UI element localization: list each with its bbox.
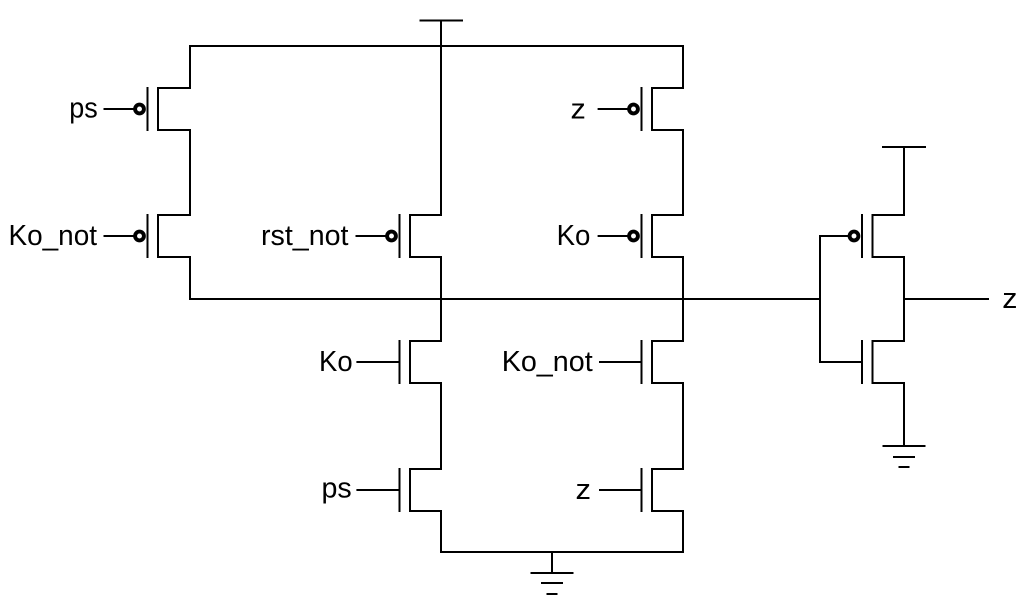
svg-text:Ko_not: Ko_not <box>502 346 593 378</box>
svg-text:Ko_not: Ko_not <box>9 220 98 252</box>
wire middle branch bus segments <box>440 257 442 552</box>
wire bottom ground rail <box>441 551 683 553</box>
svg-text:Ko: Ko <box>319 346 353 378</box>
transistor M8 NMOS Ko_not (right, row 3) <box>600 341 683 383</box>
wire VDD stub to rail <box>440 21 442 216</box>
wire inverter input bus <box>819 236 821 362</box>
svg-text:z: z <box>571 94 586 126</box>
transistor M9 NMOS z (right, row 4) <box>600 469 683 511</box>
svg-text:z: z <box>1002 283 1017 315</box>
transistor M11 NMOS inverter <box>820 341 904 383</box>
transistor M7 NMOS ps (middle, row 4) <box>357 469 441 511</box>
VDD symbol (top middle) <box>421 20 463 22</box>
transistor M4 PMOS z (top right) <box>599 88 683 130</box>
wire inverter VDD stub <box>903 147 905 215</box>
transistor M6 NMOS Ko (middle, row 3) <box>357 341 441 383</box>
ground symbol (bottom middle) <box>532 552 573 594</box>
transistor M3 PMOS rst_not (middle, row 2) <box>357 215 442 257</box>
ground symbol (inverter) <box>884 446 925 467</box>
transistor M2 PMOS Ko_not (left, row 2) <box>105 215 191 257</box>
transistor M1 PMOS ps (top left) <box>105 88 191 130</box>
wire inverter output bus <box>903 257 905 341</box>
svg-text:ps: ps <box>69 93 98 125</box>
VDD symbol (inverter) <box>883 146 925 148</box>
transistor M5 PMOS Ko (right, row 2) <box>599 215 683 257</box>
wire left branch bus segments <box>189 46 191 299</box>
wire inverter ground stub <box>903 383 905 446</box>
wire output z line <box>904 298 988 300</box>
svg-text:ps: ps <box>322 473 352 505</box>
wire VDD top rail <box>190 45 683 47</box>
wire output node line (left part, node z internal) <box>190 298 820 300</box>
transistor M10 PMOS inverter <box>820 215 904 257</box>
wire right branch bus segments <box>682 46 684 552</box>
svg-text:z: z <box>576 474 592 506</box>
svg-text:rst_not: rst_not <box>261 220 349 252</box>
svg-text:Ko: Ko <box>557 220 591 252</box>
